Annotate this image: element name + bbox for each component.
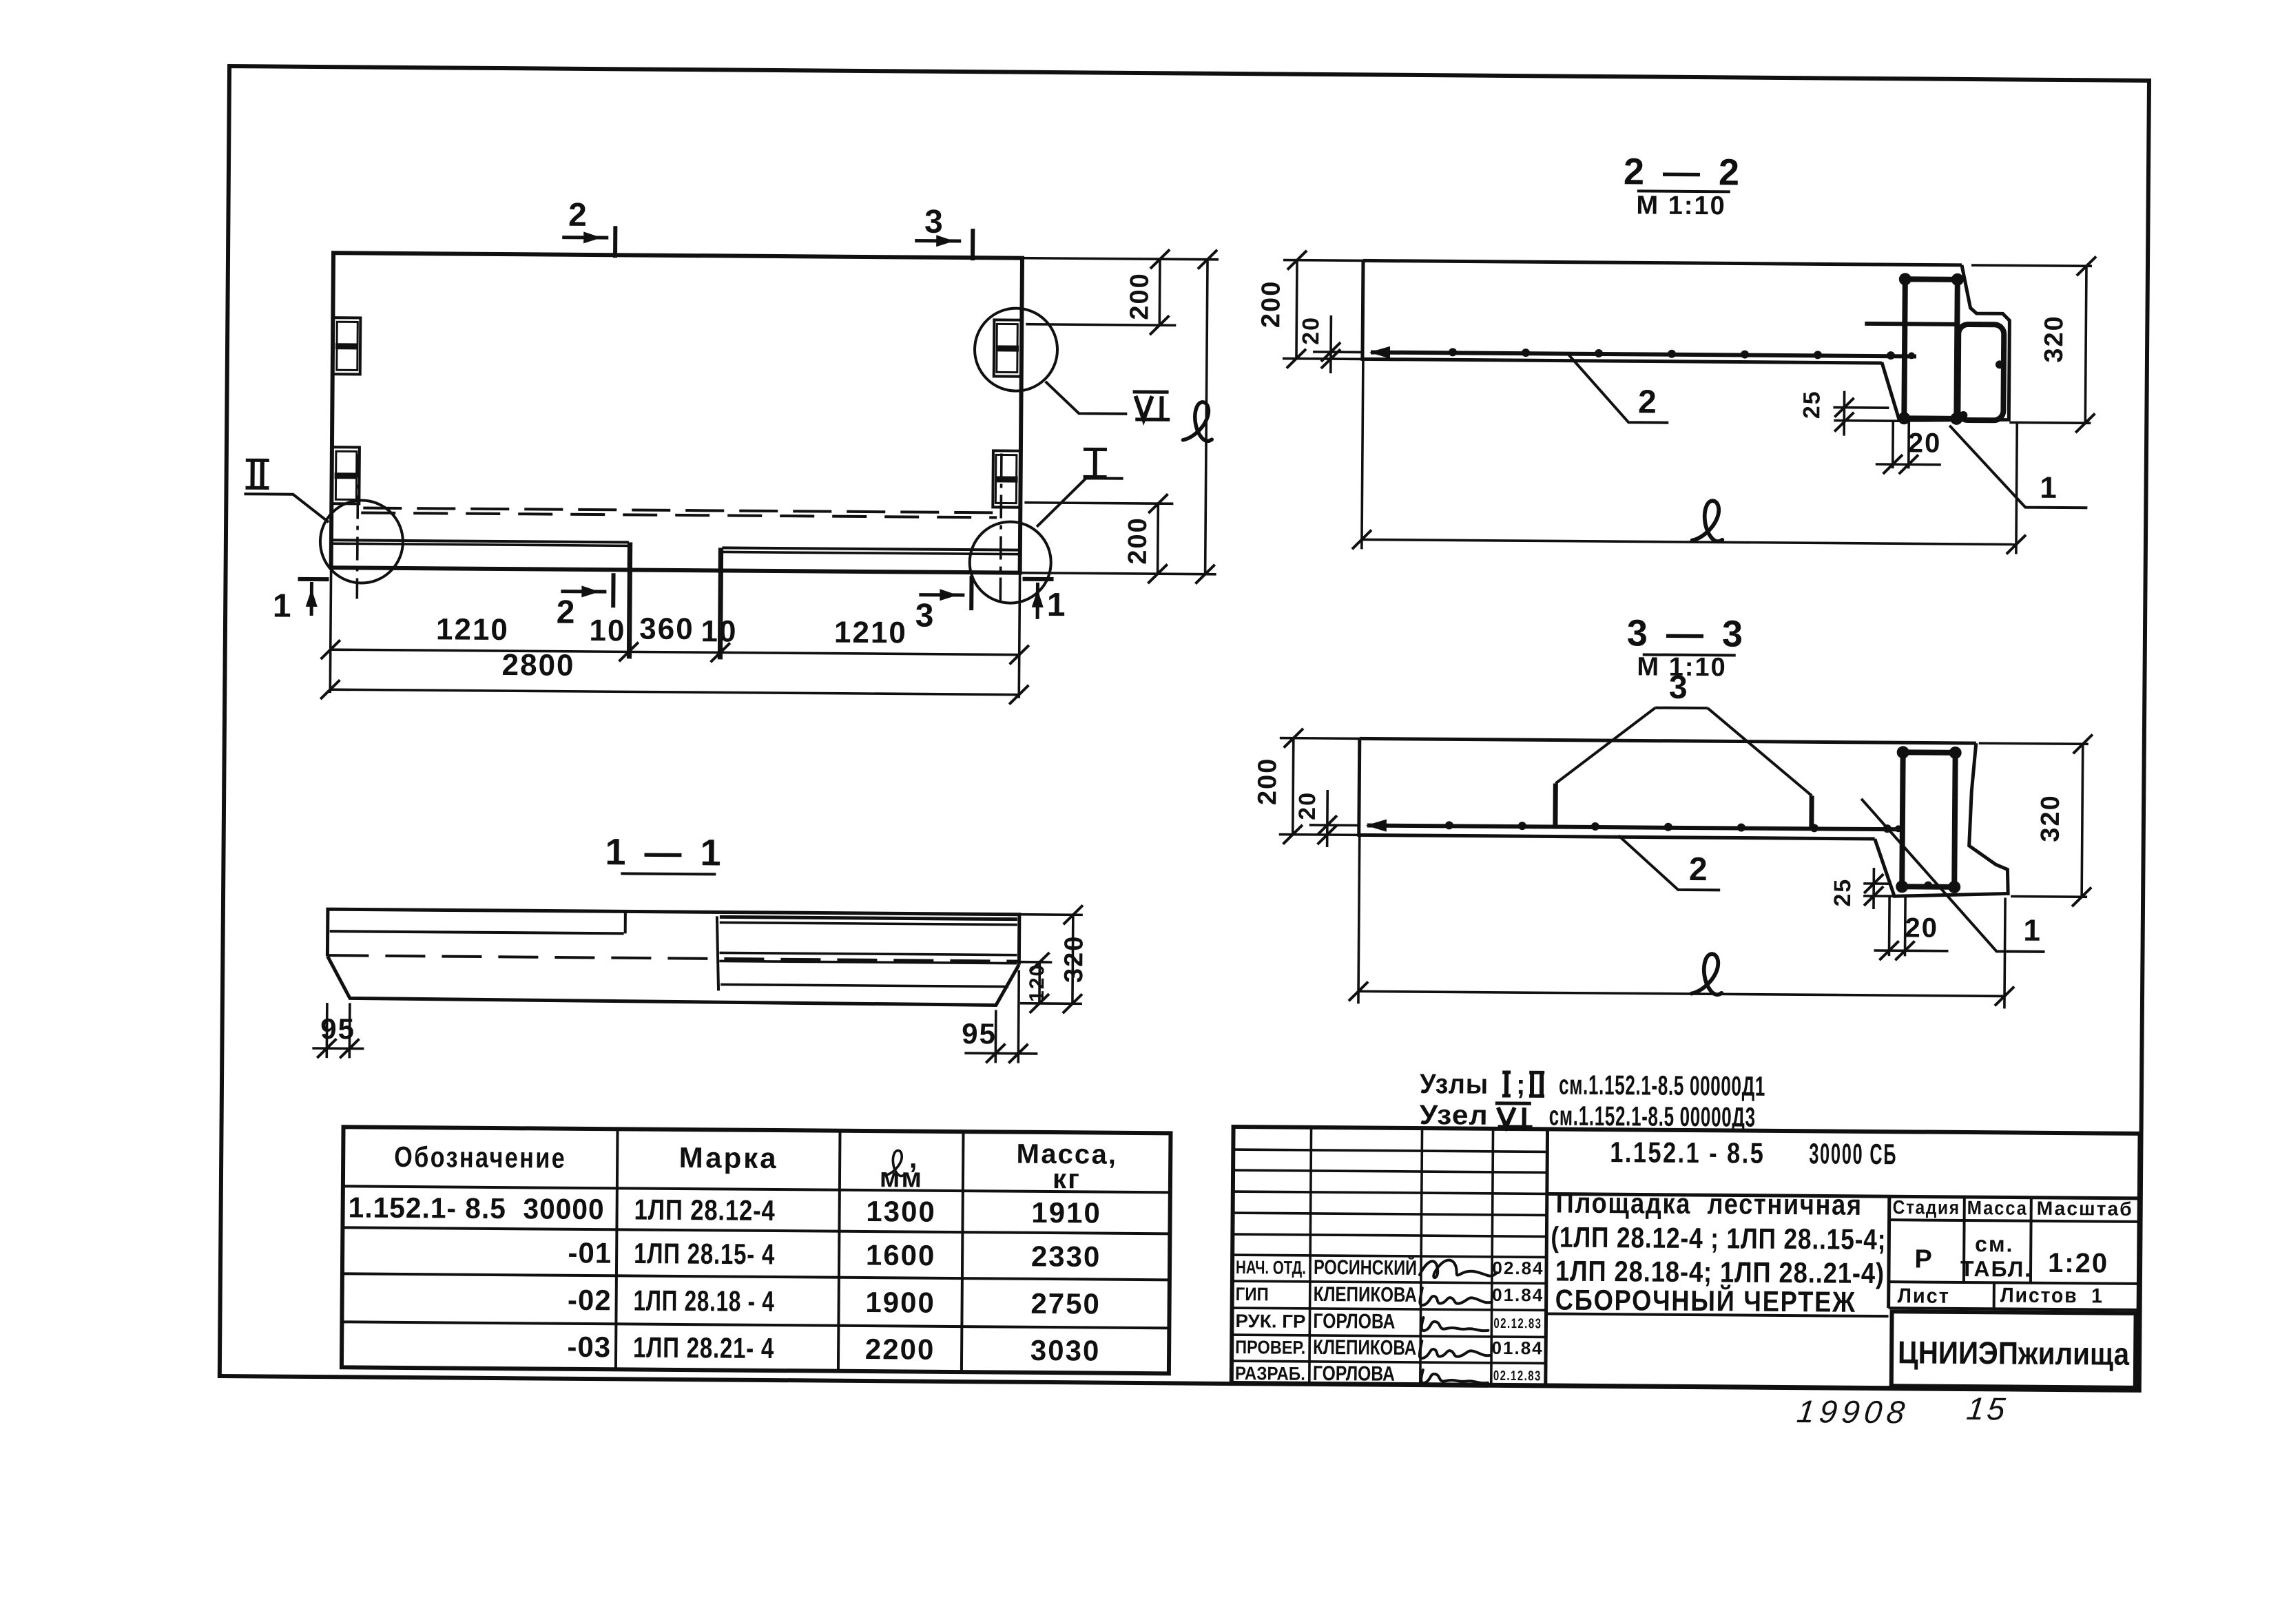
svg-text:2750: 2750 [1030,1287,1101,1320]
svg-text:1910: 1910 [1031,1196,1101,1229]
svg-text:25: 25 [1830,878,1856,907]
svg-text:1ЛП 28.15- 4: 1ЛП 28.15- 4 [634,1237,775,1271]
svg-text:КЛЕПИКОВА: КЛЕПИКОВА [1314,1283,1417,1307]
svg-text:200: 200 [1256,280,1286,329]
svg-text:РАЗРАБ.: РАЗРАБ. [1235,1363,1305,1384]
svg-text:320: 320 [1059,935,1089,983]
svg-text:2330: 2330 [1031,1240,1101,1273]
svg-text:1.152.1- 8.5 30000: 1.152.1- 8.5 30000 [348,1191,604,1225]
svg-text:РОСИНСКИЙ: РОСИНСКИЙ [1314,1256,1417,1280]
svg-text:15: 15 [1965,1391,2010,1426]
svg-text:ГОРЛОВА: ГОРЛОВА [1313,1362,1395,1386]
svg-text:1900: 1900 [865,1286,935,1319]
svg-text:2: 2 [1689,851,1709,888]
svg-text:200: 200 [1125,272,1154,320]
svg-text:1ЛП 28.18 - 4: 1ЛП 28.18 - 4 [633,1284,774,1318]
svg-text:30000 СБ: 30000 СБ [1809,1137,1897,1170]
svg-text:320: 320 [2040,315,2069,363]
svg-text:ПРОВЕР.: ПРОВЕР. [1235,1337,1305,1358]
svg-text:М 1:10: М 1:10 [1636,191,1726,220]
svg-text:1210: 1210 [436,612,509,647]
svg-text:3 — 3: 3 — 3 [1627,612,1748,654]
svg-text:19908: 19908 [1795,1393,1911,1430]
svg-text:10: 10 [589,614,625,647]
svg-text:;: ; [1516,1070,1527,1100]
svg-text:ГИП: ГИП [1236,1284,1269,1304]
svg-text:3030: 3030 [1030,1334,1101,1367]
svg-text:Масштаб: Масштаб [2037,1198,2133,1220]
svg-text:ЦНИИЭПжилища: ЦНИИЭПжилища [1898,1334,2130,1372]
svg-text:20: 20 [1905,913,1938,943]
svg-text:2 — 2: 2 — 2 [1624,151,1744,193]
svg-text:01.84: 01.84 [1492,1284,1544,1306]
svg-text:2: 2 [557,594,577,631]
svg-text:01.84: 01.84 [1492,1337,1544,1359]
svg-text:Узлы: Узлы [1420,1069,1489,1100]
svg-text:200: 200 [1253,758,1283,806]
svg-text:Площадка лестничная: Площадка лестничная [1556,1187,1863,1221]
svg-text:02.12.83: 02.12.83 [1493,1368,1542,1384]
svg-text:(1ЛП 28.12-4 ; 1ЛП 28..15-4;: (1ЛП 28.12-4 ; 1ЛП 28..15-4; [1551,1220,1886,1256]
svg-text:ГОРЛОВА: ГОРЛОВА [1313,1310,1395,1333]
svg-text:1.152.1 - 8.5: 1.152.1 - 8.5 [1610,1136,1765,1169]
svg-text:95: 95 [962,1017,997,1050]
svg-text:Р: Р [1914,1245,1934,1273]
svg-text:-02: -02 [568,1284,612,1316]
svg-text:1:20: 1:20 [2048,1248,2108,1279]
svg-text:1: 1 [2040,471,2058,505]
svg-text:Масса: Масса [1967,1197,2028,1219]
svg-text:кг: кг [1053,1164,1081,1194]
svg-text:1ЛП 28.21- 4: 1ЛП 28.21- 4 [633,1331,774,1365]
svg-text:2800: 2800 [501,648,574,683]
svg-text:360: 360 [639,612,694,647]
svg-text:НАЧ. ОТД.: НАЧ. ОТД. [1236,1257,1306,1278]
svg-text:РУК. ГР: РУК. ГР [1235,1311,1305,1332]
svg-text:02.12.83: 02.12.83 [1493,1316,1542,1332]
svg-text:Обозначение: Обозначение [394,1141,566,1174]
svg-text:20: 20 [1294,791,1320,820]
svg-text:1300: 1300 [866,1195,936,1228]
svg-text:см.: см. [1975,1231,2014,1256]
svg-text:1: 1 [2023,914,2042,948]
svg-text:Марка: Марка [679,1141,778,1174]
svg-text:см.1.152.1-8.5 00000Д1: см.1.152.1-8.5 00000Д1 [1559,1070,1765,1102]
svg-text:Стадия: Стадия [1893,1196,1960,1218]
svg-text:20: 20 [1908,428,1942,458]
svg-text:1: 1 [1047,587,1067,623]
svg-text:КЛЕПИКОВА: КЛЕПИКОВА [1313,1336,1416,1360]
svg-text:-03: -03 [567,1331,611,1363]
svg-text:Лист: Лист [1898,1284,1950,1308]
svg-text:1ЛП 28.12-4: 1ЛП 28.12-4 [634,1194,775,1227]
svg-text:3: 3 [915,598,935,634]
svg-text:3: 3 [924,204,944,240]
svg-text:120: 120 [1026,964,1048,1002]
svg-text:320: 320 [2036,794,2066,842]
svg-text:200: 200 [1123,517,1153,565]
svg-text:1: 1 [273,588,293,625]
svg-text:ТАБЛ.: ТАБЛ. [1960,1256,2032,1282]
svg-text:мм: мм [880,1163,924,1193]
svg-text:3: 3 [1669,669,1689,706]
svg-text:02.84: 02.84 [1492,1258,1544,1279]
svg-text:2: 2 [1638,384,1658,420]
svg-text:1 — 1: 1 — 1 [605,831,725,873]
svg-text:1600: 1600 [866,1239,936,1272]
svg-text:20: 20 [1298,316,1324,345]
svg-text:2: 2 [568,197,588,233]
svg-text:25: 25 [1799,390,1825,419]
svg-text:10: 10 [701,614,737,648]
svg-text:-01: -01 [568,1236,612,1269]
svg-text:Листов 1: Листов 1 [2000,1284,2104,1307]
svg-text:1210: 1210 [834,616,907,650]
svg-text:2200: 2200 [865,1333,935,1366]
svg-text:95: 95 [320,1012,355,1045]
svg-text:Узел: Узел [1420,1100,1489,1131]
